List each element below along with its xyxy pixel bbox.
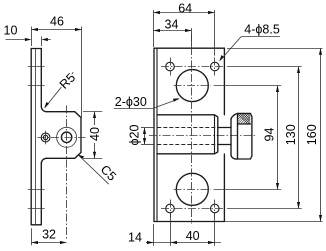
svg-text:64: 64 [178, 1, 192, 15]
svg-text:40: 40 [88, 127, 102, 141]
svg-text:160: 160 [305, 124, 319, 145]
svg-text:46: 46 [50, 15, 64, 29]
svg-text:130: 130 [284, 124, 298, 145]
svg-text:4-ϕ8.5: 4-ϕ8.5 [244, 22, 280, 36]
svg-text:14: 14 [128, 231, 142, 245]
svg-text:94: 94 [263, 128, 277, 142]
svg-text:C5: C5 [98, 162, 119, 183]
svg-text:2-ϕ30: 2-ϕ30 [115, 95, 147, 109]
svg-text:ϕ20: ϕ20 [128, 125, 142, 146]
svg-text:10: 10 [4, 24, 18, 38]
svg-text:40: 40 [186, 229, 200, 243]
svg-text:32: 32 [42, 227, 56, 241]
svg-text:34: 34 [165, 17, 179, 31]
